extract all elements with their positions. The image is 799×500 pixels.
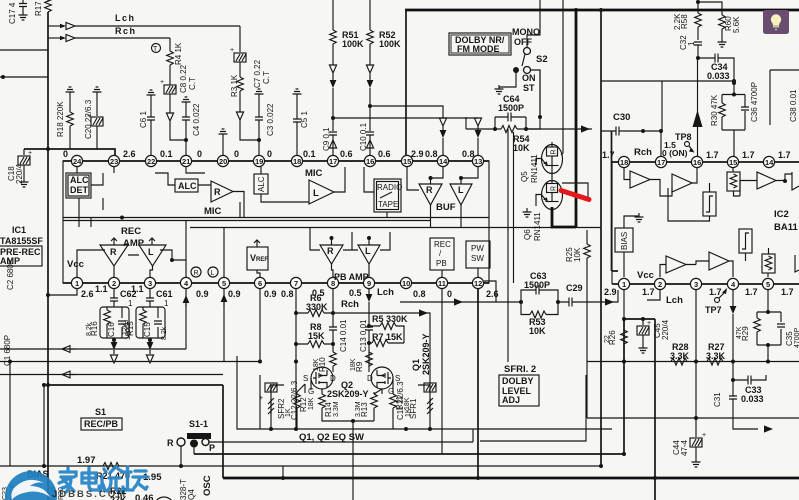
wire pin 3 down xyxy=(695,290,697,437)
svg-text:18: 18 xyxy=(293,157,301,166)
svg-text:C15: C15 xyxy=(143,322,152,337)
svg-text:7: 7 xyxy=(294,279,298,288)
svg-text:22: 22 xyxy=(147,157,155,166)
wire: thick horizontal y=385 left xyxy=(48,384,223,386)
svg-text:IC2: IC2 xyxy=(774,209,789,220)
svg-text:47-4: 47-4 xyxy=(680,439,689,456)
svg-text:0: 0 xyxy=(234,149,239,159)
svg-text:12: 12 xyxy=(474,279,482,288)
junction x=353 y=421 xyxy=(351,419,355,423)
svg-text:1.7: 1.7 xyxy=(745,287,758,297)
wire: double horizontal lines inside IC1 y=217,220 xyxy=(63,218,489,221)
wire: vertical x=624 below pin1 xyxy=(623,319,625,454)
junction y=454 x=624 xyxy=(622,452,626,456)
svg-text:Q4: Q4 xyxy=(187,489,196,500)
svg-text:C.T: C.T xyxy=(188,77,197,90)
junction y=418 x=696 xyxy=(694,416,698,420)
capacitor C31 xyxy=(713,392,758,429)
svg-text:R5 330K: R5 330K xyxy=(372,314,408,324)
junction x=44 y=385 xyxy=(42,383,46,387)
svg-text:0: 0 xyxy=(447,289,452,299)
junction y=466 x=44 xyxy=(42,464,46,468)
wire pin 12 jog to y=302 xyxy=(484,281,496,302)
svg-text:C36 4700P: C36 4700P xyxy=(750,82,759,122)
box ALC DET xyxy=(66,173,91,198)
network R30 47K / C36 4700P xyxy=(710,81,759,156)
svg-text:REC/PB: REC/PB xyxy=(84,419,119,429)
svg-text:R: R xyxy=(167,438,174,448)
svg-text:100K: 100K xyxy=(342,39,364,49)
wire x=283 stub xyxy=(282,466,284,478)
svg-text:C31: C31 xyxy=(713,392,722,407)
junction above R58 xyxy=(696,0,700,4)
label Q4 328-T vertical xyxy=(179,479,196,500)
svg-text:15K: 15K xyxy=(308,331,325,341)
capacitor C9 0.1 xyxy=(322,127,337,151)
wire thick pin1 node to x=655 xyxy=(624,318,655,320)
svg-text:C29: C29 xyxy=(566,283,583,293)
wire y=418 xyxy=(587,417,799,419)
wire limiter to amp2 xyxy=(668,183,710,221)
pin 5 xyxy=(218,277,229,288)
resistor R51 100K xyxy=(330,0,364,49)
bottom left small labels xyxy=(2,483,65,500)
box BIAS xyxy=(615,213,644,277)
svg-text:0.1: 0.1 xyxy=(160,149,173,159)
svg-text:PW: PW xyxy=(471,244,484,253)
transistor Q1 2SK209-Y (right) xyxy=(367,367,400,396)
svg-text:SFRI. 2: SFRI. 2 xyxy=(504,364,536,375)
svg-text:R30 47K: R30 47K xyxy=(710,94,719,126)
resistor box IC2 bottom right xyxy=(762,248,775,277)
svg-text:G: G xyxy=(308,387,314,396)
svg-text:C3 0.022: C3 0.022 xyxy=(266,103,275,136)
svg-text:22: 22 xyxy=(604,335,611,343)
op-amp MIC L xyxy=(309,180,334,204)
svg-text:L: L xyxy=(365,246,371,256)
wire: left stub y=50 xyxy=(0,49,48,51)
svg-text:R: R xyxy=(194,270,199,277)
junction C32 bottom xyxy=(696,56,700,60)
pin 15 xyxy=(727,156,738,167)
arrows below R15 C15 network xyxy=(146,338,153,363)
capacitor C17 xyxy=(8,0,28,24)
resistor R60 5.6K xyxy=(718,15,742,47)
svg-text:1.7: 1.7 xyxy=(742,150,755,160)
wire top stub to R60 xyxy=(698,0,722,15)
wire: thick bottom bus y=478 xyxy=(223,477,799,480)
op-amp IC2 top 2 xyxy=(672,167,697,192)
capacitor C45 220/4 xyxy=(637,317,670,353)
svg-text:1: 1 xyxy=(128,299,133,308)
junction REC amp mid xyxy=(170,258,174,262)
svg-text:10: 10 xyxy=(402,279,410,288)
pin 11 xyxy=(436,277,447,288)
op-amp IC2 bottom 2 xyxy=(696,252,733,277)
wire from junction to arrows above pins 14,13 xyxy=(333,106,478,118)
svg-text:BUF: BUF xyxy=(436,202,456,213)
box REC/PB xyxy=(430,238,454,270)
capacitor C18 220/4 xyxy=(7,149,32,187)
wires REC amps to pins xyxy=(77,250,186,277)
svg-text:S2: S2 xyxy=(536,54,548,65)
wire: IC2 pin row lines xyxy=(612,162,799,284)
svg-text:C14 0.01: C14 0.01 xyxy=(339,319,348,352)
svg-text:0.033: 0.033 xyxy=(707,71,730,81)
svg-text:Rch: Rch xyxy=(634,147,652,158)
svg-text:C61: C61 xyxy=(156,289,173,299)
op-amp BUF R (down) xyxy=(419,184,442,205)
resistor R5 330K xyxy=(367,314,408,343)
svg-text:+: + xyxy=(702,432,706,439)
wire: vertical bus x=576 xyxy=(575,10,578,228)
svg-text:ALC: ALC xyxy=(70,175,89,185)
resistor R13 3.3M xyxy=(353,389,382,421)
wire: horizontal line y=227 inside IC1 xyxy=(190,227,601,229)
svg-text:S1-1: S1-1 xyxy=(189,419,208,429)
wires MIC amp area xyxy=(186,167,309,218)
resistor R54 10K xyxy=(466,117,592,153)
svg-text:Q6: Q6 xyxy=(523,229,532,240)
wires PB amps to pins xyxy=(310,228,390,278)
junction top bus x=601 xyxy=(599,8,603,12)
svg-text:D: D xyxy=(367,374,373,383)
svg-text:220/4: 220/4 xyxy=(15,163,24,184)
box top right with C38 xyxy=(770,70,799,125)
svg-text:S1: S1 xyxy=(95,407,106,417)
svg-text:1: 1 xyxy=(622,280,626,289)
svg-text:C2 680P: C2 680P xyxy=(6,259,15,290)
pin 16 xyxy=(691,156,702,167)
svg-text:0.5: 0.5 xyxy=(349,288,362,298)
wire: horizontal long EQ line y=361.5 left xyxy=(0,361,260,363)
op-amp IC2 top 1 xyxy=(624,167,672,196)
pin 15 xyxy=(401,155,412,166)
solid down arrow below pin 4 IC2 xyxy=(730,290,737,396)
open left arrow on y=349 xyxy=(62,346,76,353)
svg-text:REC: REC xyxy=(434,240,451,249)
watermark text jia (vector) xyxy=(59,467,148,492)
junction x=370 y=106 xyxy=(368,104,372,108)
capacitor C30 xyxy=(601,127,663,157)
resistor box below pin 15 xyxy=(727,167,740,196)
box ALC xyxy=(175,179,198,192)
resistor R18 220K xyxy=(56,87,75,149)
wire: left stub y=77 xyxy=(0,76,48,78)
pin 5 xyxy=(762,278,773,289)
svg-text:TA8155SF: TA8155SF xyxy=(0,236,43,246)
pin 18 xyxy=(618,156,629,167)
lightbulb icon xyxy=(763,10,789,34)
wires ALC DET area xyxy=(77,167,175,227)
capacitor C32 1 xyxy=(679,35,702,58)
svg-text:MIC: MIC xyxy=(305,168,323,179)
resistor R3 1K xyxy=(230,62,243,97)
junction x=624 y=361.5 xyxy=(622,360,626,364)
solid right arrow to bus xyxy=(581,125,590,132)
svg-text:L: L xyxy=(211,270,215,277)
resistor R58 2.2K xyxy=(673,2,701,40)
junction x=48 y=295 xyxy=(46,293,50,297)
box REC/PB switch label xyxy=(81,418,122,430)
svg-text:ALC: ALC xyxy=(178,181,197,191)
node T circle xyxy=(152,44,161,54)
switch S2 xyxy=(495,10,541,117)
wire Q6 top right thin wire xyxy=(562,183,588,199)
capacitor C34 0.033 xyxy=(698,54,734,82)
pin 21 xyxy=(180,155,191,166)
svg-text:1: 1 xyxy=(75,279,79,288)
svg-text:23: 23 xyxy=(110,157,118,166)
op-amp IC2 top 4 partial xyxy=(792,172,799,190)
solid up arrow into pin 4 xyxy=(183,289,190,349)
svg-text:14: 14 xyxy=(765,158,774,167)
wire: horizontal EQ line y=361.5 right xyxy=(587,361,799,363)
svg-text:3: 3 xyxy=(694,280,698,289)
top pin values row xyxy=(63,149,475,159)
pin 8 xyxy=(327,277,338,288)
test point TP8 xyxy=(662,132,695,158)
wire pin 6 down xyxy=(258,289,262,364)
wire: vertical bus feeding IC1 pin 15 xyxy=(405,10,407,156)
wire: vertical x=10 left xyxy=(9,362,11,467)
solid right arrow into IC2 pin1 xyxy=(601,290,618,306)
svg-text:R14: R14 xyxy=(324,402,333,417)
pin 17 xyxy=(655,156,666,167)
junction at top bus x=576 xyxy=(574,8,578,12)
resistor R27 3.3K xyxy=(706,342,726,365)
open up arrow into pin 17 xyxy=(329,135,336,155)
wires BUF amps xyxy=(407,167,478,228)
svg-text:1.7: 1.7 xyxy=(778,150,791,160)
wire pin4 to inner bus xyxy=(185,221,187,278)
resistor R26 22 xyxy=(604,290,627,362)
wire: thick vertical x=478 pin12 down xyxy=(477,289,479,478)
svg-text:2.2K: 2.2K xyxy=(673,13,682,30)
resistor R14 3.3M xyxy=(319,389,353,421)
svg-text:C35: C35 xyxy=(785,331,794,346)
wire Q5 emitter up to x=563 line xyxy=(561,148,563,155)
wire: C18 node to pin23 thick xyxy=(24,149,115,156)
junction BUF inputs xyxy=(429,176,433,180)
svg-text:1.7: 1.7 xyxy=(709,287,722,297)
wire: pin1 down-left to bus xyxy=(48,289,77,295)
IC1 outline box xyxy=(63,161,489,283)
svg-text:10K: 10K xyxy=(573,247,582,262)
junction y=478 x=283 xyxy=(281,476,285,480)
resistor R10 18K xyxy=(313,352,336,372)
svg-text:220/4: 220/4 xyxy=(661,319,670,340)
svg-text:R: R xyxy=(110,247,117,257)
wire PW SW to pin 12 xyxy=(477,268,479,277)
svg-text:OFF: OFF xyxy=(514,37,532,47)
box C30 area xyxy=(661,81,663,131)
svg-text:L: L xyxy=(458,185,464,195)
svg-text:47K: 47K xyxy=(736,326,743,339)
junction on wire y=227 xyxy=(120,216,124,220)
svg-text:C1 680P: C1 680P xyxy=(3,335,12,366)
svg-text:5.6K: 5.6K xyxy=(732,16,741,33)
svg-text:R: R xyxy=(551,186,558,191)
svg-text:R: R xyxy=(426,185,433,195)
wire: IC1 pin row lines xyxy=(63,161,489,283)
junction x=48 y=149 xyxy=(46,147,50,151)
svg-text:R3 1K: R3 1K xyxy=(230,74,239,97)
pin 6 xyxy=(254,277,265,288)
svg-text:1: 1 xyxy=(164,299,169,308)
svg-text:2.6: 2.6 xyxy=(486,289,499,299)
transistor Q2 2SK209-Y xyxy=(303,367,336,396)
svg-text:18K: 18K xyxy=(350,358,357,371)
svg-text:3.3M: 3.3M xyxy=(355,401,362,417)
wire: horizontal y=454 xyxy=(194,453,624,455)
svg-text:2.9: 2.9 xyxy=(604,287,617,297)
wires MIC L / RADIO TAPE xyxy=(334,167,387,218)
label Q5 RN1411 xyxy=(520,154,539,183)
capacitor C5 1 xyxy=(293,89,310,155)
pin 4 xyxy=(727,278,738,289)
svg-text:C6 1: C6 1 xyxy=(139,111,148,128)
op-amp REC R (down) xyxy=(100,238,128,266)
junction y=478 x=478 xyxy=(476,476,480,480)
capacitor C6 1 xyxy=(139,90,156,155)
svg-text:R17: R17 xyxy=(34,1,43,16)
svg-text:0.6: 0.6 xyxy=(378,149,391,159)
pin 3 xyxy=(144,277,155,288)
svg-text:1.7: 1.7 xyxy=(706,150,719,160)
pin 4 xyxy=(180,277,191,288)
svg-text:TAPE: TAPE xyxy=(378,200,398,209)
op-amp MIC R xyxy=(211,181,233,202)
ground at Q6 base xyxy=(523,208,532,217)
svg-text:C62: C62 xyxy=(120,289,137,299)
junction x=768 y=361.5 xyxy=(766,360,770,364)
junction y=385 x=48 xyxy=(46,383,50,387)
svg-text:0: 0 xyxy=(267,149,272,159)
junction R3 chain joins C3 line xyxy=(257,138,261,142)
svg-text:R7 15K: R7 15K xyxy=(372,332,403,342)
svg-text:ON: ON xyxy=(522,73,536,83)
svg-text:0.1: 0.1 xyxy=(303,149,316,159)
svg-text:PB: PB xyxy=(436,259,447,268)
solid down arrow below R51 xyxy=(330,80,337,131)
svg-text:0.8: 0.8 xyxy=(281,289,294,299)
junction x=333 y=118 xyxy=(331,116,335,120)
svg-text:RADIO: RADIO xyxy=(377,183,402,192)
svg-text:C11 22/6.3: C11 22/6.3 xyxy=(396,381,405,420)
pin 12 xyxy=(472,277,483,288)
red annotation line xyxy=(561,191,589,200)
svg-text:3.3M: 3.3M xyxy=(333,401,340,417)
svg-text:8.2k: 8.2k xyxy=(161,326,168,340)
watermark text dian (vector) xyxy=(82,468,99,490)
svg-text:TP7: TP7 xyxy=(705,305,722,315)
small ground above pin 20 xyxy=(219,129,228,155)
bottom pin values row xyxy=(81,284,499,299)
svg-text:RN1411: RN1411 xyxy=(533,212,542,241)
svg-text:0.9: 0.9 xyxy=(196,289,209,299)
svg-text:1.7: 1.7 xyxy=(781,287,794,297)
limiter box IC2 bottom xyxy=(739,229,752,261)
solid up arrow into pin 5 xyxy=(221,289,228,362)
pin 7 xyxy=(290,277,301,288)
svg-text:Rch: Rch xyxy=(341,299,359,310)
resistor R7 15K xyxy=(369,332,404,347)
junction PB amp top xyxy=(330,236,334,240)
svg-text:2: 2 xyxy=(658,280,662,289)
svg-text:0.9: 0.9 xyxy=(264,289,277,299)
wire: left vertical bus x=48 xyxy=(47,12,49,500)
resistor R28 3.3K xyxy=(670,342,690,365)
wire pin 11 down xyxy=(441,289,443,454)
open down arrow below R51 xyxy=(329,44,336,80)
svg-text:C5 1: C5 1 xyxy=(300,111,309,128)
pin 14 xyxy=(437,155,448,166)
pin 20 xyxy=(217,155,228,166)
junction x=733 y=361.5 xyxy=(731,360,735,364)
wire: horizontal y=466 xyxy=(0,465,601,467)
pin 19 xyxy=(253,155,264,166)
svg-text:REC: REC xyxy=(121,226,141,237)
capacitor C20 22/6.3 xyxy=(84,87,103,149)
pin 18 xyxy=(291,155,302,166)
svg-text:16: 16 xyxy=(693,158,701,167)
box PRE-REC AMP xyxy=(0,246,42,266)
svg-text:TP8: TP8 xyxy=(675,132,692,142)
resistor R11 18K xyxy=(390,390,411,429)
resistor R21 470 xyxy=(90,463,130,482)
wire: vertical line x=563 top to Q5 xyxy=(562,0,564,148)
solid right arrow at C31 output xyxy=(764,425,773,432)
IC2 outline box xyxy=(611,162,613,284)
wire Vref to pin 6 xyxy=(257,270,260,277)
capacitor C44 47-4 xyxy=(672,432,706,467)
node on y=77 xyxy=(1,75,5,79)
label ON ST xyxy=(522,73,536,93)
network R16 8.2K / C16 1000P xyxy=(86,301,132,340)
svg-text:2.6: 2.6 xyxy=(123,149,136,159)
svg-text:0: 0 xyxy=(197,149,202,159)
pin 3 xyxy=(690,278,701,289)
box PW SW xyxy=(466,241,490,268)
node circle R xyxy=(191,267,201,277)
svg-text:C17 4: C17 4 xyxy=(8,2,17,24)
svg-text:Lch: Lch xyxy=(377,287,394,298)
svg-text:11: 11 xyxy=(438,279,446,288)
svg-text:12K: 12K xyxy=(122,322,129,335)
solid down arrow below pin 9 xyxy=(366,289,373,326)
junction y=466 x=181 xyxy=(179,464,183,468)
box Vref xyxy=(247,240,268,270)
IC2 top values xyxy=(602,150,791,160)
box RADIO TAPE xyxy=(374,179,402,212)
svg-text:10K: 10K xyxy=(513,143,530,153)
solid right arrow on y=302 xyxy=(454,298,463,305)
capacitor C29 xyxy=(558,283,601,307)
op-amp IC2 bottom 3 partial xyxy=(795,255,799,272)
capacitor C4 0.022 xyxy=(182,97,202,155)
op-amp IC2 top 3 xyxy=(740,172,792,196)
svg-text:IC1: IC1 xyxy=(12,225,26,235)
svg-text:OSC: OSC xyxy=(202,475,213,496)
wire signal line y=302 into C63 network xyxy=(400,289,521,302)
resistor R25 10K xyxy=(565,230,590,418)
svg-text:ALC: ALC xyxy=(257,176,266,192)
svg-text:C13 0.01: C13 0.01 xyxy=(359,319,368,352)
svg-text:0.9: 0.9 xyxy=(228,289,241,299)
capacitor C14 0.01 xyxy=(329,289,348,352)
svg-text:L: L xyxy=(313,188,319,199)
